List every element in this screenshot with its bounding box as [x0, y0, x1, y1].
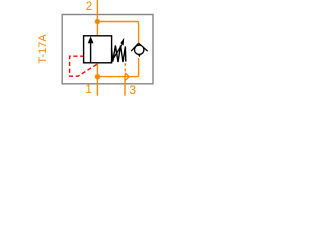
- svg-text:1: 1: [85, 84, 91, 96]
- svg-text:T-17A: T-17A: [37, 34, 49, 64]
- svg-text:2: 2: [86, 1, 92, 13]
- svg-text:3: 3: [129, 83, 136, 97]
